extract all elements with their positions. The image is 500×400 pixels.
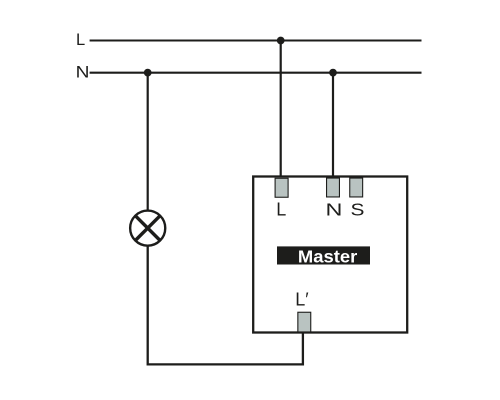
terminal N (input) [327, 178, 340, 197]
svg-text:N: N [76, 63, 90, 81]
svg-text:Master: Master [298, 247, 357, 266]
wire line N [90, 72, 422, 74]
wire from N junction down to lamp [147, 73, 149, 211]
terminal S (input) [350, 178, 363, 197]
node junction on N line (lamp branch) [144, 69, 152, 77]
svg-text:L: L [76, 31, 85, 49]
svg-text:L′: L′ [295, 290, 309, 310]
device box U1 (Master) [253, 177, 407, 333]
svg-text:S: S [351, 200, 365, 220]
svg-text:N: N [326, 200, 343, 220]
node junction on L line (branch to terminal L) [277, 37, 285, 45]
lamp E1 (circle with cross) [130, 211, 165, 246]
wire from L line junction down to terminal L [280, 41, 282, 178]
Master name plate [277, 246, 370, 264]
node junction on N line (branch to terminal N) [329, 69, 337, 77]
terminal L' (output, bottom) [298, 312, 311, 332]
wire from lamp down, right along bottom, and up to terminal L' [148, 246, 303, 365]
wire from N line junction down to terminal N [332, 73, 334, 177]
svg-text:L: L [276, 200, 286, 220]
terminal L (input) [275, 178, 288, 197]
wire line L [90, 39, 422, 41]
